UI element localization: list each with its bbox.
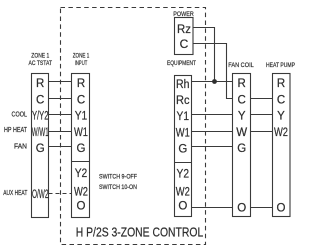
wire C (FAN COIL) to HEAT PUMP C — [251, 98, 273, 100]
wire G (EQUIPMENT) to FAN COIL G — [192, 146, 233, 148]
svg-text:Y/Y2: Y/Y2 — [32, 111, 49, 123]
svg-text:Y: Y — [238, 111, 246, 123]
wire C from POWER down to FAN COIL C — [193, 44, 233, 99]
svg-text:R: R — [36, 78, 44, 90]
svg-text:FAN: FAN — [14, 144, 27, 151]
svg-text:AUX HEAT: AUX HEAT — [3, 190, 27, 197]
terminal block ZONE 1 AC TSTAT — [29, 53, 53, 218]
terminal block ZONE 1 INPUT — [72, 53, 90, 218]
svg-text:W2: W2 — [176, 187, 190, 199]
wire Rz from POWER down to R node — [193, 28, 215, 82]
svg-text:W2: W2 — [74, 187, 88, 199]
terminal block POWER — [173, 11, 194, 55]
svg-text:Rh: Rh — [176, 79, 190, 91]
svg-text:W/W1: W/W1 — [32, 127, 49, 139]
svg-text:C: C — [238, 95, 246, 107]
svg-text:SWITCH 9-OFF: SWITCH 9-OFF — [99, 174, 137, 181]
svg-text:C: C — [277, 95, 285, 107]
svg-text:Y2: Y2 — [177, 169, 190, 181]
svg-text:Rz: Rz — [177, 22, 191, 36]
svg-text:G: G — [77, 143, 86, 155]
svg-text:SWITCH 10-ON: SWITCH 10-ON — [99, 184, 137, 191]
wire C to C (tstat-input) — [49, 98, 72, 100]
svg-text:W2: W2 — [274, 127, 288, 139]
svg-text:Y1: Y1 — [75, 111, 88, 123]
wire W (FAN COIL) to HEAT PUMP W2 — [251, 131, 273, 133]
svg-text:Y1: Y1 — [177, 111, 190, 123]
svg-text:Rc: Rc — [176, 95, 190, 107]
svg-text:HEAT PUMP: HEAT PUMP — [266, 62, 295, 69]
svg-text:INPUT: INPUT — [75, 60, 88, 67]
svg-text:G: G — [36, 143, 45, 155]
svg-text:R: R — [238, 78, 246, 90]
junction node R — [212, 79, 217, 84]
svg-text:R: R — [277, 78, 285, 90]
wire R to R (tstat-input) — [49, 81, 72, 83]
svg-text:C: C — [36, 95, 44, 107]
svg-text:Y: Y — [277, 111, 285, 123]
terminal block EQUIPMENT — [167, 60, 196, 217]
wire W/W1 to W1 (tstat-input) — [49, 131, 72, 133]
svg-text:R: R — [77, 78, 85, 90]
svg-text:POWER: POWER — [173, 11, 194, 18]
svg-text:EQUIPMENT: EQUIPMENT — [167, 60, 196, 67]
wire G to G (tstat-input) — [49, 146, 72, 148]
svg-text:W: W — [236, 127, 247, 139]
svg-text:G: G — [178, 144, 187, 156]
wire O (EQUIPMENT) to FAN COIL O — [192, 207, 233, 209]
svg-text:H P/2S 3-ZONE CONTROL: H P/2S 3-ZONE CONTROL — [76, 225, 204, 240]
terminal block HEAT PUMP — [266, 62, 295, 217]
svg-text:O: O — [237, 203, 246, 215]
svg-text:C: C — [77, 95, 85, 107]
dashed wire O/W2 to W2 (tstat-input) — [49, 193, 72, 195]
svg-text:O: O — [178, 201, 187, 213]
svg-text:C: C — [180, 37, 189, 51]
svg-text:AC TSTAT: AC TSTAT — [29, 60, 53, 67]
svg-text:G: G — [237, 143, 246, 155]
zone control panel dashed boundary — [61, 8, 206, 245]
svg-text:O: O — [277, 203, 286, 215]
svg-text:ZONE 1: ZONE 1 — [73, 53, 90, 60]
wire Y1 (EQUIPMENT) to FAN COIL Y — [192, 114, 233, 116]
wire Y/Y2 to Y1 (tstat-input) — [49, 114, 72, 116]
wire Y (FAN COIL) to HEAT PUMP Y — [251, 114, 273, 116]
svg-text:O: O — [77, 201, 86, 213]
svg-text:O/W2: O/W2 — [32, 189, 49, 201]
svg-text:ZONE 1: ZONE 1 — [31, 53, 49, 60]
terminal block FAN COIL — [228, 62, 254, 217]
svg-text:HP HEAT: HP HEAT — [4, 127, 28, 134]
svg-text:W1: W1 — [176, 128, 190, 140]
svg-text:COOL: COOL — [12, 112, 28, 119]
svg-text:FAN COIL: FAN COIL — [228, 62, 254, 69]
wire O (FAN COIL) to HEAT PUMP O — [251, 207, 273, 209]
svg-text:Y2: Y2 — [75, 168, 88, 180]
wire Rh (EQUIPMENT) to FAN COIL R — [192, 81, 233, 83]
wire W1 (EQUIPMENT) to FAN COIL W — [192, 131, 233, 133]
svg-text:W1: W1 — [74, 127, 88, 139]
